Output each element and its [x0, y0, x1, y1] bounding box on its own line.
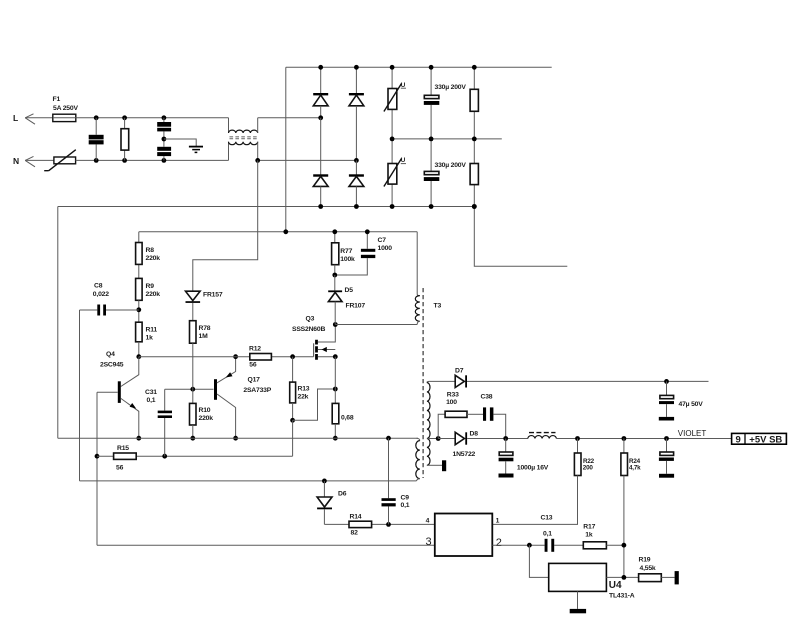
svg-text:C38: C38 [481, 393, 493, 400]
svg-text:R11: R11 [146, 327, 158, 334]
svg-text:FR157: FR157 [203, 291, 223, 298]
resistor R12 [250, 354, 272, 361]
capacitor C13 [545, 539, 555, 552]
transformer T3 primary [415, 232, 420, 325]
svg-text:1N5722: 1N5722 [453, 451, 476, 458]
wire top rail to B+ vertical [285, 67, 287, 232]
svg-text:+5V SB: +5V SB [749, 434, 782, 445]
wire snubber riser [438, 414, 445, 438]
wire D7 output line [467, 380, 709, 382]
svg-text:0,1: 0,1 [147, 397, 156, 404]
capacitor C9 [382, 438, 396, 524]
svg-text:82: 82 [351, 529, 359, 536]
terminal L [13, 113, 35, 124]
node R13-bottom [290, 418, 295, 423]
node Q4-emitter-gnd [136, 436, 141, 441]
wire U4 ref drop [529, 545, 548, 577]
svg-text:R78: R78 [199, 325, 211, 332]
transformer T3 core [422, 288, 424, 478]
wire N rail to choke [76, 159, 229, 161]
fuse F1 [53, 114, 76, 121]
wire divider mid rail [392, 138, 502, 140]
svg-text:C13: C13 [541, 514, 553, 521]
node Rb-mid [472, 137, 477, 142]
diode D1 [313, 67, 328, 118]
node D6-tap [322, 479, 327, 484]
wire R15 to R13 riser [292, 420, 294, 456]
node source-R13 [333, 387, 338, 392]
capacitor output [659, 439, 674, 474]
resistor R22 [492, 439, 581, 525]
node C31-R15 [162, 454, 167, 459]
diode D4 [349, 160, 364, 206]
node RV1-top [390, 65, 395, 70]
wire D8 to inductor [467, 438, 528, 440]
svg-text:R33: R33 [447, 392, 459, 399]
svg-text:22k: 22k [298, 394, 309, 401]
svg-text:F1: F1 [53, 96, 61, 103]
diode D5 [328, 275, 342, 325]
node N-R [122, 158, 127, 163]
wire L rail after choke [258, 117, 321, 119]
svg-text:Q3: Q3 [306, 315, 315, 322]
wire opto pin2 line [492, 544, 583, 546]
resistor R77 [332, 232, 339, 275]
ground 47u [659, 417, 674, 421]
transistor U4 TL431-A [549, 563, 607, 591]
transformer T3 auxiliary winding [416, 438, 420, 481]
svg-text:0,022: 0,022 [93, 291, 109, 298]
svg-text:220k: 220k [146, 291, 161, 298]
resistor R10 [190, 389, 197, 438]
svg-text:2: 2 [496, 537, 502, 549]
wire DC+ top rail [286, 66, 552, 68]
wire G17 base line [165, 388, 214, 390]
wire primary ground rail [58, 437, 418, 439]
svg-text:SSS2N60B: SSS2N60B [292, 326, 325, 333]
node C9-R14 [386, 522, 391, 527]
capacitor Y1 [157, 118, 171, 147]
resistor R11 [136, 322, 143, 357]
wire R17 to R24 [606, 544, 624, 546]
svg-text:47µ 50V: 47µ 50V [679, 401, 704, 408]
node R24-R19 [622, 575, 627, 580]
svg-text:C9: C9 [401, 495, 410, 502]
wire N-to-thermistor [25, 159, 54, 161]
node Q3-source [333, 354, 338, 359]
svg-text:VIOLET: VIOLET [678, 429, 707, 438]
ground output cap [659, 474, 674, 478]
diode D3 [349, 67, 364, 160]
svg-text:3: 3 [426, 536, 432, 548]
svg-text:TL431-A: TL431-A [609, 593, 635, 600]
transistor Q4 [97, 357, 139, 439]
node Q17-collector-gnd [233, 436, 238, 441]
node secondary tap [436, 436, 441, 441]
node L-Y [162, 115, 167, 120]
wire startup feed down-left [193, 160, 258, 291]
resistor R24 [621, 439, 628, 578]
node Q17-emitter-gate [233, 354, 238, 359]
ground R19 stub [675, 571, 679, 584]
svg-text:330µ 200V: 330µ 200V [435, 162, 467, 169]
node N-bridge [354, 158, 359, 163]
wire DC- bottom rail [58, 206, 475, 208]
svg-text:4,55k: 4,55k [640, 565, 656, 572]
wire C8 left drop [79, 310, 81, 481]
svg-text:4,7k: 4,7k [629, 465, 641, 472]
node C-mid [429, 137, 434, 142]
capacitor C1 330u 200V [424, 67, 440, 139]
wire U4 anode drop [577, 591, 579, 609]
earth ground [189, 147, 203, 153]
svg-text:R17: R17 [583, 523, 595, 530]
capacitor Y2 [157, 147, 171, 161]
resistor bleeder input [121, 118, 129, 161]
node R12-R13 [290, 354, 295, 359]
node RV-mid [390, 137, 395, 142]
resistor R19 [639, 574, 675, 582]
node R24-top [622, 436, 627, 441]
resistor R14 [324, 521, 434, 527]
node D1-top [318, 65, 323, 70]
resistor R8 [136, 232, 143, 279]
svg-text:Q4: Q4 [106, 351, 115, 358]
svg-text:330µ 200V: 330µ 200V [435, 84, 467, 91]
svg-text:C8: C8 [94, 283, 103, 290]
terminal N [13, 156, 35, 167]
svg-text:1k: 1k [146, 335, 154, 342]
svg-text:0,1: 0,1 [543, 530, 552, 537]
node Rb2-bottom [472, 204, 477, 209]
diode FR157 [186, 291, 201, 321]
capacitor C2 330u 200V [424, 139, 440, 207]
svg-text:100k: 100k [340, 256, 355, 263]
svg-text:1000: 1000 [378, 245, 393, 252]
wire +5V SB rail [556, 438, 731, 440]
node L-R [122, 115, 127, 120]
wire bottom rail right drop [474, 207, 567, 267]
svg-text:0,1: 0,1 [401, 502, 410, 509]
wire R33 to C38 [467, 413, 483, 415]
svg-text:1000µ 16V: 1000µ 16V [517, 465, 549, 472]
svg-text:N: N [13, 156, 19, 166]
varistor RV2 [384, 139, 406, 207]
svg-text:4: 4 [426, 517, 430, 524]
svg-text:U4: U4 [609, 580, 622, 591]
capacitor C31 [158, 389, 172, 456]
resistor 0,68 [332, 403, 339, 438]
wire L-to-fuse [25, 117, 53, 119]
svg-text:200: 200 [583, 464, 594, 471]
op-amp U3 optocoupler [435, 514, 493, 557]
wire Y-mid to earth [164, 139, 196, 146]
capacitor C38 [483, 407, 506, 438]
ground secondary winding stub [442, 460, 446, 471]
svg-text:L: L [13, 113, 18, 123]
inductor L2 [528, 433, 557, 439]
node Q4-base-R15 [95, 454, 100, 459]
svg-text:56: 56 [116, 465, 124, 472]
svg-text:220k: 220k [199, 415, 214, 422]
node Y-mid [162, 137, 167, 142]
capacitor 1000u 16V [499, 439, 514, 474]
svg-text:D6: D6 [338, 491, 347, 498]
node R9-C8 [136, 307, 141, 312]
resistor bleed upper [470, 67, 478, 139]
svg-text:R15: R15 [117, 445, 129, 452]
svg-text:FR107: FR107 [346, 303, 366, 310]
transformer T3 secondary [427, 381, 442, 465]
svg-text:R13: R13 [298, 386, 310, 393]
varistor RV1 [384, 67, 406, 139]
choke CM right leads [257, 118, 259, 161]
wire B+ line [139, 231, 417, 233]
node B+ feed [283, 229, 288, 234]
svg-text:220k: 220k [146, 255, 161, 262]
svg-text:R19: R19 [639, 557, 651, 564]
node 47u-tap [664, 379, 669, 384]
svg-text:C7: C7 [378, 237, 387, 244]
node D4-bottom [354, 204, 359, 209]
svg-text:R77: R77 [340, 248, 352, 255]
resistor R15 [97, 453, 293, 459]
node C7-top [365, 229, 370, 234]
node N-C1 [94, 158, 99, 163]
svg-text:D5: D5 [345, 287, 354, 294]
wire opto pin3 line [97, 544, 435, 546]
node C1-top [429, 65, 434, 70]
svg-text:1: 1 [496, 517, 500, 524]
capacitor C7 [335, 232, 376, 275]
node R11-gate-line [136, 354, 141, 359]
transistor Q3 SSS2N60B [314, 325, 336, 360]
connector 9 +5V SB [732, 433, 787, 445]
diode D2 [313, 118, 328, 207]
wire U4 cathode right [606, 576, 638, 578]
resistor R78 [190, 321, 197, 390]
wire tap to D8 [438, 438, 455, 440]
wire aux bottom line [80, 480, 417, 482]
wire N rail after choke [258, 159, 357, 161]
node N-Y [162, 158, 167, 163]
diode D7 [455, 375, 467, 387]
resistor R33 [445, 411, 467, 417]
node R17-R24 [622, 543, 627, 548]
svg-text:C31: C31 [145, 389, 157, 396]
node R77-D5 [332, 273, 337, 278]
node D3-top [354, 65, 359, 70]
capacitor X2 [89, 118, 104, 161]
svg-text:2SA733P: 2SA733P [243, 387, 271, 394]
ground U4 [570, 609, 586, 613]
node R77-top [332, 229, 337, 234]
svg-text:2SC945: 2SC945 [100, 361, 124, 368]
capacitor C8 [80, 305, 139, 316]
node U4-feed [527, 543, 532, 548]
svg-text:Q17: Q17 [248, 376, 261, 383]
node L-bridge [318, 115, 323, 120]
choke CM winding top [229, 130, 258, 133]
node C38-1000u [503, 436, 508, 441]
node bottom-rail corner [472, 204, 477, 209]
wire R13 jog to source [293, 389, 336, 420]
node R22-top [575, 436, 580, 441]
transistor Q17 [216, 357, 236, 439]
ground 1000u [499, 474, 514, 478]
svg-text:1M: 1M [199, 333, 209, 340]
wire drain to primary [335, 324, 417, 326]
node C2-bottom [429, 204, 434, 209]
wire gate drive line [139, 356, 314, 358]
diode D8 [455, 432, 467, 444]
choke CM winding bottom [229, 142, 258, 145]
svg-text:100: 100 [446, 399, 457, 406]
diode D6 [317, 481, 332, 525]
svg-text:9: 9 [736, 434, 741, 445]
node choke-N [255, 158, 260, 163]
svg-text:56: 56 [249, 361, 257, 368]
resistor R17 [583, 542, 606, 549]
node R78-R10-base [190, 387, 195, 392]
svg-text:1k: 1k [585, 531, 593, 538]
svg-text:0,68: 0,68 [341, 415, 354, 422]
svg-text:R10: R10 [199, 407, 211, 414]
node D2-bottom [318, 204, 323, 209]
wire Q4 base drop [96, 392, 98, 545]
node C9-gnd [386, 436, 391, 441]
svg-text:D7: D7 [455, 367, 464, 374]
resistor R13 [290, 357, 296, 421]
choke CM core [230, 137, 257, 139]
capacitor 47u 50V [659, 381, 674, 417]
node R10-gnd [190, 436, 195, 441]
svg-text:5A 250V: 5A 250V [53, 105, 78, 112]
svg-text:R12: R12 [249, 346, 261, 353]
resistor R9 [136, 278, 143, 322]
node L-C1 [94, 115, 99, 120]
wire secondary top to D7 [429, 380, 455, 382]
choke CM left leads [228, 118, 230, 161]
svg-text:R14: R14 [350, 513, 362, 520]
node RV2-bottom [390, 204, 395, 209]
resistor bleed lower [470, 139, 478, 207]
node shunt-gnd [333, 436, 338, 441]
wire L rail to choke [76, 117, 229, 119]
svg-text:D8: D8 [470, 431, 479, 438]
wire bottom rail left drop [57, 207, 59, 439]
thermistor t [44, 150, 76, 171]
svg-text:R8: R8 [146, 247, 155, 254]
node Rb1-top [472, 65, 477, 70]
svg-text:R9: R9 [146, 283, 155, 290]
node Q3-drain [333, 322, 338, 327]
node out-cap-top [664, 436, 669, 441]
wire source drop [334, 357, 336, 404]
svg-text:T3: T3 [434, 303, 442, 310]
